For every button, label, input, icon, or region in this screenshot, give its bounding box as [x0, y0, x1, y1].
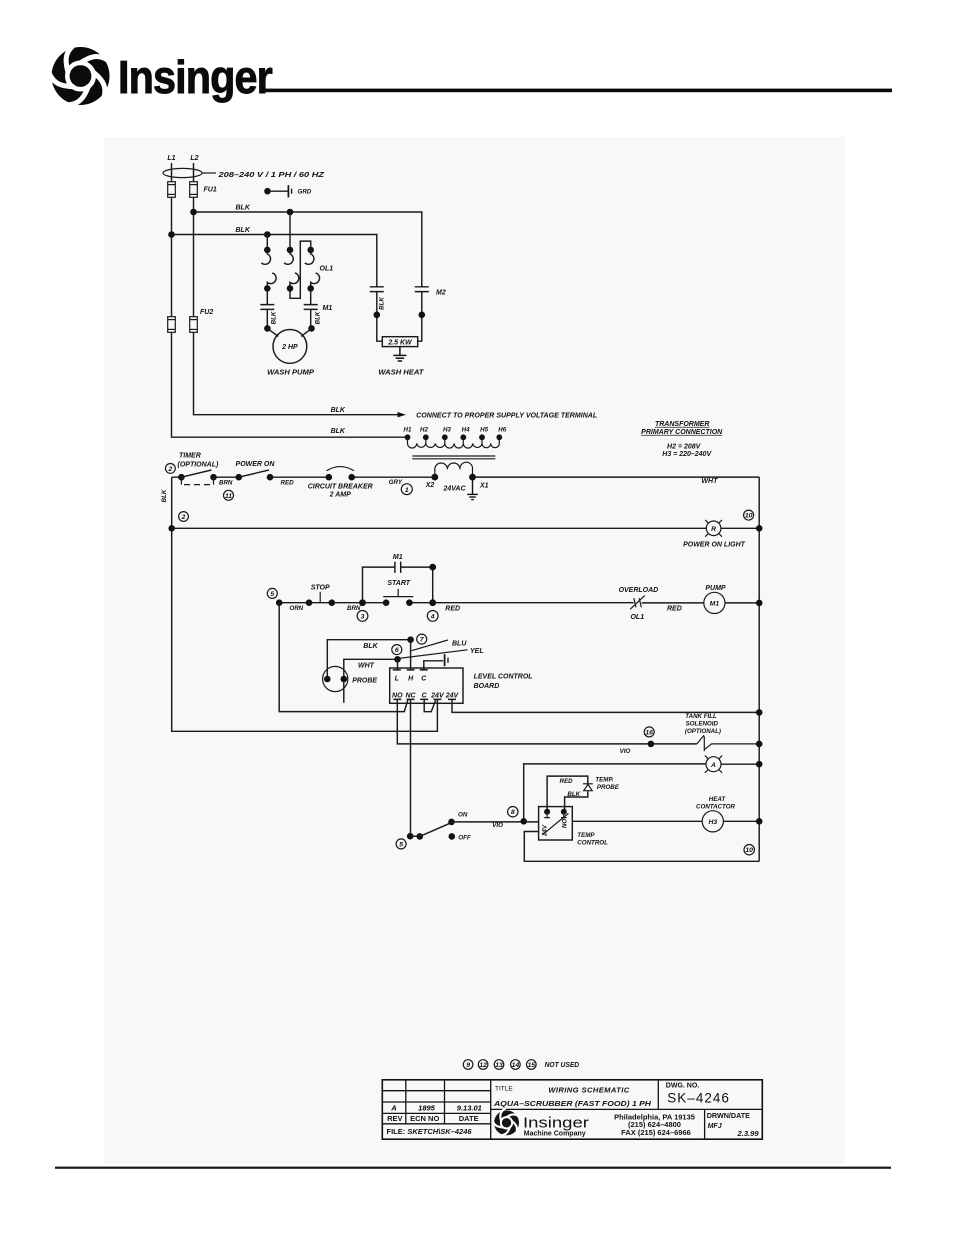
svg-text:CIRCUIT BREAKER: CIRCUIT BREAKER — [308, 484, 373, 491]
transformer T1 primary terminals H1-H6 — [404, 427, 507, 441]
temp control box — [539, 807, 573, 840]
footer rule — [55, 1167, 891, 1169]
svg-text:START: START — [387, 580, 410, 587]
svg-text:OVERLOAD: OVERLOAD — [619, 587, 659, 594]
node 13 circled — [494, 1060, 504, 1070]
temp control blade — [543, 813, 569, 834]
svg-text:POWER ON LIGHT: POWER ON LIGHT — [683, 542, 746, 549]
svg-text:WASH PUMP: WASH PUMP — [267, 367, 315, 376]
svg-text:8: 8 — [511, 809, 515, 816]
svg-text:H3 = 220–240V: H3 = 220–240V — [662, 451, 712, 458]
svg-text:NOT USED: NOT USED — [545, 1062, 580, 1069]
motor 2HP wash pump — [273, 330, 307, 364]
junction left rail/rail2 — [168, 525, 175, 532]
wire NC terminal down to on/off switch — [410, 699, 412, 836]
svg-text:TANK FILL: TANK FILL — [685, 713, 717, 720]
svg-text:12: 12 — [479, 1062, 487, 1069]
Insinger title block logo swirl — [491, 1108, 520, 1138]
junction H3/right rail — [756, 818, 763, 825]
transformer T1 secondary winding 24VAC — [435, 462, 473, 477]
svg-text:WASH HEAT: WASH HEAT — [378, 367, 424, 376]
junction node7 — [407, 636, 414, 643]
svg-text:BLK: BLK — [331, 428, 346, 435]
junction coil A/right rail — [756, 761, 763, 768]
svg-text:FILE: SKETCH\SK–4246: FILE: SKETCH\SK–4246 — [387, 1127, 473, 1136]
node 9 circled — [463, 1060, 473, 1070]
temp probe loop BLK — [565, 791, 588, 812]
svg-text:HEAT: HEAT — [709, 796, 727, 803]
svg-text:H4: H4 — [462, 427, 470, 434]
svg-text:9.13.01: 9.13.01 — [457, 1104, 482, 1113]
svg-text:VIO: VIO — [492, 822, 503, 829]
svg-text:ECN NO: ECN NO — [410, 1114, 439, 1123]
node 4 circled — [427, 611, 438, 622]
level control board box — [390, 668, 463, 703]
fuse FU1 on L1 — [168, 182, 176, 198]
svg-text:2.5 KW: 2.5 KW — [387, 340, 413, 347]
svg-text:208–240 V / 1 PH / 60 HZ: 208–240 V / 1 PH / 60 HZ — [217, 170, 324, 179]
svg-text:A: A — [710, 762, 716, 769]
svg-text:2: 2 — [168, 466, 173, 473]
wire pump coil to right rail — [725, 602, 759, 604]
wire temp control 24V return to right rail — [524, 832, 759, 862]
wire OL2-to-OL3 bracket — [290, 241, 311, 298]
svg-text:BLK: BLK — [331, 407, 346, 414]
overload heater coil 3 — [305, 247, 320, 292]
svg-text:SK–4246: SK–4246 — [667, 1091, 730, 1106]
junction node16 — [648, 741, 655, 748]
junction node5 — [276, 599, 283, 606]
contactor M1 contact right — [304, 288, 318, 328]
node 3 circled — [357, 611, 368, 622]
wire BLK bus 1 to M2 — [194, 212, 422, 287]
fuse FU1 on L2 — [190, 182, 198, 198]
wire BLK probe to node7 — [327, 640, 410, 679]
svg-text:X1: X1 — [479, 483, 489, 490]
svg-text:H5: H5 — [480, 427, 488, 434]
chassis stub at C terminal — [424, 654, 448, 670]
svg-text:15: 15 — [528, 1062, 536, 1069]
svg-text:TIMER: TIMER — [179, 453, 201, 460]
header underline — [263, 89, 892, 93]
node 8 circled — [508, 807, 518, 817]
overload heater coil 2 — [284, 247, 299, 292]
wire node7 to H terminal — [410, 640, 412, 670]
svg-text:RED: RED — [445, 605, 460, 612]
svg-text:24V: 24V — [445, 693, 460, 700]
node 7 circled — [417, 634, 427, 644]
wire motor diagonal leads — [267, 328, 311, 336]
Insinger header wordmark — [118, 52, 273, 104]
wire L2 vertical to supply arrow — [194, 163, 399, 415]
svg-text:NO: NO — [561, 819, 568, 828]
svg-text:OFF: OFF — [458, 835, 471, 842]
svg-text:H2: H2 — [420, 427, 428, 434]
svg-text:VIO: VIO — [620, 748, 631, 755]
svg-text:PRIMARY CONNECTION: PRIMARY CONNECTION — [641, 429, 723, 436]
svg-text:2 HP: 2 HP — [281, 344, 298, 351]
circuit breaker CB 2A — [326, 467, 356, 481]
board top terminals L H C — [393, 669, 428, 671]
wire H3 to right rail — [723, 820, 759, 822]
svg-text:L2: L2 — [190, 155, 198, 162]
svg-text:RED: RED — [281, 479, 295, 486]
svg-text:BLK: BLK — [236, 205, 251, 212]
node 15 circled — [527, 1060, 537, 1070]
svg-text:SOLENOID: SOLENOID — [686, 720, 719, 727]
junction node8 — [520, 818, 527, 825]
wire ellipse lead — [202, 172, 216, 174]
node 14 circled — [511, 1060, 521, 1070]
supply terminal ellipse — [163, 168, 202, 177]
svg-text:CONTACTOR: CONTACTOR — [696, 803, 735, 810]
svg-text:NO: NO — [392, 693, 403, 700]
svg-text:24V: 24V — [541, 824, 548, 837]
timer switch (optional) — [178, 470, 217, 485]
svg-text:WHT: WHT — [701, 478, 718, 485]
svg-text:BLK: BLK — [271, 311, 278, 324]
svg-text:FAX (215) 624–6966: FAX (215) 624–6966 — [621, 1128, 691, 1137]
svg-text:DATE: DATE — [459, 1114, 479, 1123]
node 2 circled rail2 — [179, 512, 189, 522]
svg-text:REV: REV — [387, 1114, 402, 1123]
svg-text:1: 1 — [405, 487, 409, 494]
junction node6 — [394, 656, 401, 663]
terminal X2 — [431, 474, 438, 481]
svg-text:2.3.99: 2.3.99 — [737, 1129, 760, 1138]
svg-text:PROBE: PROBE — [352, 678, 377, 685]
junction heater left — [374, 312, 381, 319]
junction solenoid/right rail — [756, 741, 763, 748]
svg-text:YEL: YEL — [470, 648, 484, 655]
svg-text:M2: M2 — [436, 289, 446, 296]
wire control rail segments — [172, 476, 760, 478]
svg-text:2 AMP: 2 AMP — [329, 492, 351, 499]
svg-text:M1: M1 — [710, 601, 720, 608]
diode temp probe — [583, 784, 593, 791]
scan background — [104, 137, 845, 1164]
svg-text:10: 10 — [745, 847, 753, 854]
svg-text:BLK: BLK — [161, 489, 168, 502]
svg-text:11: 11 — [225, 493, 232, 500]
svg-text:BLK: BLK — [315, 311, 322, 324]
svg-text:MFJ: MFJ — [708, 1123, 723, 1130]
svg-text:GRY: GRY — [389, 479, 403, 486]
svg-text:3: 3 — [361, 614, 365, 621]
title block outer border — [382, 1080, 762, 1139]
svg-text:ORN: ORN — [289, 605, 303, 612]
pushbutton START (NO) — [383, 589, 413, 606]
svg-text:L: L — [395, 675, 399, 682]
float switch blade BLU — [412, 640, 448, 651]
svg-text:CONTROL: CONTROL — [577, 839, 608, 846]
seal-in branch with M1 aux contact — [363, 562, 433, 603]
junction node3 — [359, 599, 366, 606]
svg-text:NC: NC — [405, 693, 416, 700]
svg-text:14: 14 — [512, 1062, 520, 1069]
wire rail3 left — [279, 602, 433, 604]
svg-text:FU1: FU1 — [204, 187, 217, 194]
svg-text:AQUA–SCRUBBER (FAST FOOD) 1 PH: AQUA–SCRUBBER (FAST FOOD) 1 PH — [493, 1099, 652, 1108]
wire node5 drop to NC — [279, 603, 408, 712]
svg-text:H6: H6 — [498, 427, 506, 434]
wire BLK bus 2 to heater contact — [172, 235, 377, 287]
junction bus2/OL1 — [264, 231, 271, 238]
node 2 circled top — [166, 464, 176, 474]
svg-text:STOP: STOP — [311, 585, 330, 592]
wire bus1 drop to OL2 — [289, 212, 291, 250]
wire rail2 — [172, 527, 760, 529]
svg-text:M1: M1 — [323, 305, 333, 312]
junction L1/bus2 — [168, 231, 175, 238]
node 5 circled bottom — [396, 839, 406, 849]
svg-text:FU2: FU2 — [200, 309, 213, 316]
svg-text:(OPTIONAL): (OPTIONAL) — [685, 728, 721, 735]
svg-text:L1: L1 — [167, 155, 175, 162]
fuse FU2 on L1 — [168, 317, 176, 333]
junction seal-in top right — [429, 564, 436, 571]
junction rail2/right rail — [756, 525, 763, 532]
svg-text:WIRING SCHEMATIC: WIRING SCHEMATIC — [548, 1086, 629, 1095]
coil H3 heat contactor — [702, 811, 723, 832]
svg-text:(OPTIONAL): (OPTIONAL) — [178, 461, 219, 468]
node 16 circled — [644, 727, 654, 737]
svg-text:BOARD: BOARD — [474, 683, 500, 690]
svg-text:5: 5 — [399, 841, 403, 848]
svg-text:BRN: BRN — [347, 605, 361, 612]
junction pump/right rail — [756, 600, 763, 607]
svg-text:4: 4 — [430, 614, 435, 621]
contactor M2 contact right — [415, 287, 429, 341]
svg-text:POWER ON: POWER ON — [236, 461, 276, 468]
wire temp control to heat contactor — [572, 820, 702, 822]
junction 24V-2/right rail — [756, 709, 763, 716]
svg-text:Machine Company: Machine Company — [524, 1130, 586, 1137]
node 10 circled rail2 — [744, 510, 754, 520]
svg-text:H3: H3 — [443, 427, 451, 434]
node 10 circled bottom — [744, 845, 754, 855]
svg-text:BLK: BLK — [236, 227, 251, 234]
svg-text:RED: RED — [560, 778, 574, 785]
node 5 circled rail3 — [267, 588, 277, 598]
svg-text:TITLE: TITLE — [495, 1085, 513, 1092]
overload OL1 contact — [630, 596, 645, 610]
svg-text:H3: H3 — [708, 819, 717, 826]
svg-text:6: 6 — [395, 647, 399, 654]
svg-text:DRWN/DATE: DRWN/DATE — [707, 1111, 750, 1120]
temp probe loop RED — [547, 776, 588, 812]
svg-text:A: A — [390, 1104, 396, 1113]
junction L2/bus1 — [190, 209, 197, 216]
svg-text:R: R — [711, 526, 716, 533]
coil A tank fill solenoid — [705, 756, 722, 773]
junction motor lead right — [308, 325, 315, 332]
terminal X1 — [469, 474, 476, 481]
node 12 circled — [478, 1060, 488, 1070]
transformer T1 primary winding — [408, 437, 500, 448]
svg-text:RED: RED — [667, 605, 682, 612]
ground below heater — [393, 347, 406, 361]
svg-text:16: 16 — [645, 729, 653, 736]
wire ON contact to temp control — [452, 821, 539, 823]
temp control terminals — [544, 809, 567, 818]
probe (2-electrode) — [323, 666, 348, 691]
junction node4 — [429, 599, 436, 606]
wire node8 riser to solenoid coil A — [524, 764, 706, 821]
wire rail3 to overload — [434, 602, 634, 604]
title block inner lines — [382, 1080, 762, 1139]
rev row A 1895 9.13.01 — [390, 1104, 482, 1113]
tank fill solenoid optional break — [697, 735, 759, 751]
svg-text:CONNECT TO PROPER SUPPLY VOLTA: CONNECT TO PROPER SUPPLY VOLTAGE TERMINA… — [416, 413, 597, 420]
float switch blade YEL — [399, 650, 468, 659]
svg-text:BLK: BLK — [363, 643, 378, 650]
Insinger header logo swirl — [44, 40, 112, 110]
left rail down to level board 24V — [172, 477, 438, 731]
svg-text:X2: X2 — [425, 482, 435, 489]
svg-text:13: 13 — [495, 1062, 503, 1069]
svg-text:BRN: BRN — [219, 479, 233, 486]
node 11 circled — [224, 490, 234, 500]
svg-text:OL1: OL1 — [320, 266, 334, 273]
switch ON/OFF — [407, 819, 455, 840]
ground GRD stub — [264, 185, 312, 197]
svg-text:1895: 1895 — [418, 1104, 436, 1113]
svg-text:H2 = 208V: H2 = 208V — [667, 443, 702, 450]
ground below X1 — [467, 477, 478, 500]
svg-text:Insinger: Insinger — [118, 52, 273, 104]
svg-text:2: 2 — [181, 514, 186, 521]
overload heater coil 1 — [261, 247, 276, 292]
supply arrowhead — [398, 412, 407, 417]
wire L1 vertical to transformer H1 — [172, 163, 408, 437]
svg-text:M1: M1 — [393, 554, 403, 561]
note TRANSFORMER PRIMARY CONNECTION — [641, 421, 723, 458]
heater element 2.5 KW box — [382, 337, 417, 347]
svg-text:10: 10 — [745, 513, 753, 520]
svg-text:PROBE: PROBE — [597, 784, 620, 791]
node 1 circled — [401, 484, 412, 495]
svg-text:Insinger: Insinger — [523, 1114, 589, 1131]
svg-text:BLK: BLK — [567, 791, 580, 798]
svg-text:GRD: GRD — [298, 189, 312, 196]
svg-text:24VAC: 24VAC — [442, 486, 466, 493]
pushbutton STOP (NC) — [306, 592, 335, 606]
svg-text:DWG. NO.: DWG. NO. — [666, 1082, 699, 1089]
wire bus2 drop to OL coil1 — [266, 235, 268, 250]
transformer T1 core — [412, 456, 495, 459]
svg-text:LEVEL CONTROL: LEVEL CONTROL — [474, 673, 533, 680]
svg-text:OL1: OL1 — [630, 614, 644, 621]
svg-text:WHT: WHT — [358, 662, 375, 669]
coil M1 pump — [704, 592, 725, 613]
svg-text:TEMP: TEMP — [577, 832, 595, 839]
contactor M2 contact left (heater) — [370, 287, 384, 341]
wire node6 to L terminal — [397, 659, 399, 670]
junction heater right — [419, 312, 426, 319]
node 6 circled — [392, 645, 402, 655]
svg-text:BLU: BLU — [452, 641, 467, 648]
lamp R power-on light — [705, 520, 722, 537]
junction bus1/OL2 — [287, 209, 294, 216]
wire overload to pump coil — [642, 602, 704, 604]
right rail — [758, 477, 760, 861]
wire NO terminal to tank fill solenoid (VIO) — [397, 699, 697, 744]
svg-text:ON: ON — [458, 811, 468, 818]
svg-text:PUMP: PUMP — [705, 585, 726, 592]
fuse FU2 on L2 — [190, 317, 198, 333]
svg-text:H1: H1 — [404, 427, 412, 434]
contactor M1 contact left — [260, 288, 274, 328]
svg-text:5: 5 — [270, 591, 274, 598]
rev header REV ECN NO DATE — [387, 1114, 479, 1123]
jumper C to 24V — [424, 699, 435, 711]
svg-text:TEMP.: TEMP. — [595, 776, 613, 783]
wire 24V-2 terminal to right rail — [452, 699, 759, 712]
address Philadelphia — [614, 1113, 695, 1138]
power on switch — [236, 470, 274, 481]
junction motor lead left — [264, 325, 271, 332]
svg-text:9: 9 — [466, 1062, 470, 1069]
svg-text:BLK: BLK — [379, 297, 386, 310]
wire WHT probe to node6/L terminal — [344, 659, 398, 703]
svg-text:TRANSFORMER: TRANSFORMER — [655, 421, 709, 428]
svg-text:24V: 24V — [430, 693, 445, 700]
wire coil A to right rail — [721, 763, 759, 765]
